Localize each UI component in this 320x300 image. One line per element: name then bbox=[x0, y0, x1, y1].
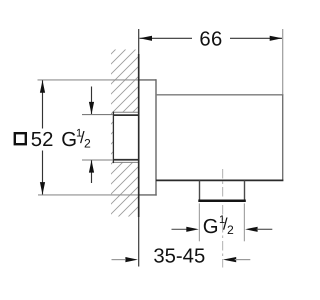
body block right edge bbox=[282, 94, 284, 180]
extension line for wall G1/2 (top) bbox=[82, 114, 113, 116]
outlet nipple left edge bbox=[199, 180, 201, 201]
wall nipple outer thin thread lines bbox=[113, 111, 139, 113]
square symbol of 52 bbox=[15, 133, 26, 144]
body block top edge bbox=[156, 94, 283, 96]
extension line right of 66 dim bbox=[282, 29, 284, 94]
dimension 66 line left part bbox=[140, 37, 193, 39]
extension line for 52 (top, plate top edge extended left) bbox=[38, 79, 140, 81]
wall nipple left edge bbox=[112, 112, 114, 164]
outlet nipple bottom thread edge bbox=[198, 199, 246, 202]
centerline of outlet bbox=[222, 169, 224, 268]
svg-text:2: 2 bbox=[84, 136, 91, 150]
extension line for 52 (bottom, plate bottom edge extended left) bbox=[38, 194, 139, 196]
extension line for wall G1/2 (bottom) bbox=[82, 159, 113, 161]
dimension 52 arrow up bbox=[40, 80, 45, 93]
wall hatching bbox=[0, 0, 320, 240]
svg-text:G: G bbox=[61, 129, 77, 151]
wall G1/2 dim arrow lower (points up) bbox=[91, 160, 93, 183]
body block bottom edge bbox=[156, 179, 283, 181]
escutcheon plate (side view) bbox=[139, 79, 156, 81]
dimension 52 line lower segment bbox=[42, 151, 44, 195]
svg-text:52: 52 bbox=[31, 129, 54, 151]
wall G1/2 dim arrow upper (points down) bbox=[91, 87, 93, 115]
svg-text:66: 66 bbox=[199, 28, 222, 50]
svg-text:2: 2 bbox=[227, 223, 234, 237]
svg-text:35-45: 35-45 bbox=[153, 246, 205, 268]
dimension 66 line right part bbox=[230, 37, 282, 39]
dimension 35-45 arrow left (points right at wall) bbox=[112, 259, 126, 261]
outlet G1/2 dim arrow right (points left) bbox=[245, 227, 258, 232]
wall nipple thick thread crest lines bbox=[113, 114, 139, 116]
wall line bbox=[138, 29, 140, 267]
dimension 66 arrow left bbox=[140, 36, 153, 41]
outlet G1/2 extension line right bbox=[243, 203, 245, 241]
outlet G1/2 extension line left bbox=[198, 203, 200, 241]
wall thread nipple G1/2 (white body) bbox=[113, 112, 138, 163]
dimension 52 arrow down bbox=[40, 182, 45, 195]
outlet nipple right edge bbox=[244, 180, 246, 201]
dimension 35-45 arrow right (points left at centerline) bbox=[223, 257, 236, 262]
svg-text:G: G bbox=[203, 216, 219, 238]
dimension 52 line upper segment bbox=[42, 80, 44, 128]
outlet G1/2 dim arrow left (points right) bbox=[172, 228, 189, 230]
dimension 66 arrow right bbox=[270, 36, 283, 41]
